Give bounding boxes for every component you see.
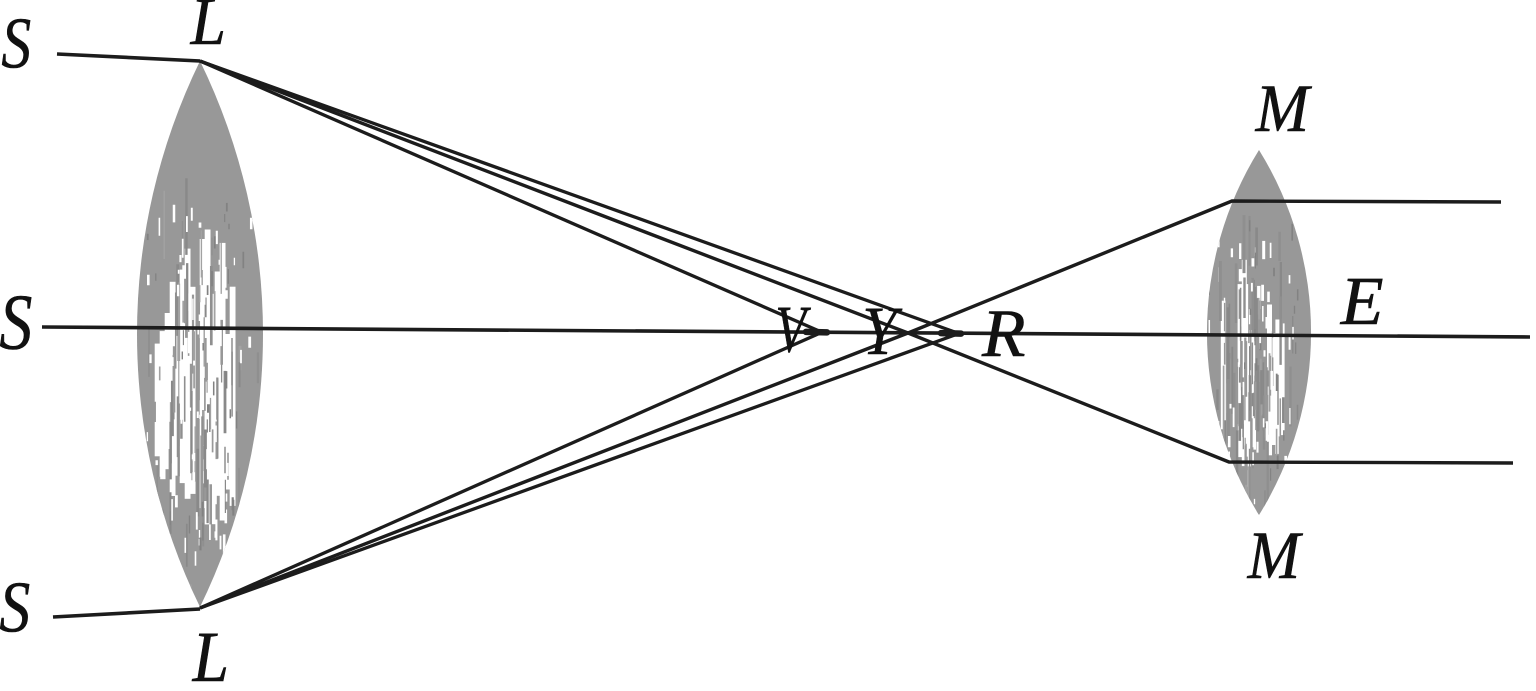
svg-text:L: L (190, 0, 226, 59)
svg-text:S: S (0, 278, 32, 366)
svg-text:L: L (192, 617, 229, 691)
ray: yellow from L bottom through Y to lens M top, exits parallel (200, 201, 1501, 608)
ray: yellow from L top through Y to lens M bottom, exits parallel (200, 61, 1513, 463)
lens M (eyepiece) body (1181, 150, 1311, 565)
svg-text:S: S (0, 567, 30, 648)
svg-text:V: V (776, 292, 811, 367)
svg-text:M: M (1255, 71, 1312, 146)
ray: violet from L bottom to focus V (200, 332, 822, 608)
node V focus blob (806, 329, 827, 336)
wire: bottom S incoming ray to lens L bottom edge (53, 609, 200, 617)
wire: top S incoming ray to lens L top edge (57, 54, 200, 61)
ray: red from L top to focus R (200, 61, 959, 334)
svg-text:S: S (1, 4, 31, 84)
svg-text:E: E (1340, 263, 1384, 340)
svg-text:M: M (1247, 519, 1304, 594)
node R focus blob (941, 330, 961, 337)
ray: violet from L top to focus V (200, 61, 822, 332)
ray: red from L bottom to focus R (200, 334, 959, 609)
svg-text:R: R (981, 297, 1026, 372)
lens L (objective) body (109, 61, 293, 614)
wire: optical axis from S through lenses to E (42, 327, 1530, 337)
